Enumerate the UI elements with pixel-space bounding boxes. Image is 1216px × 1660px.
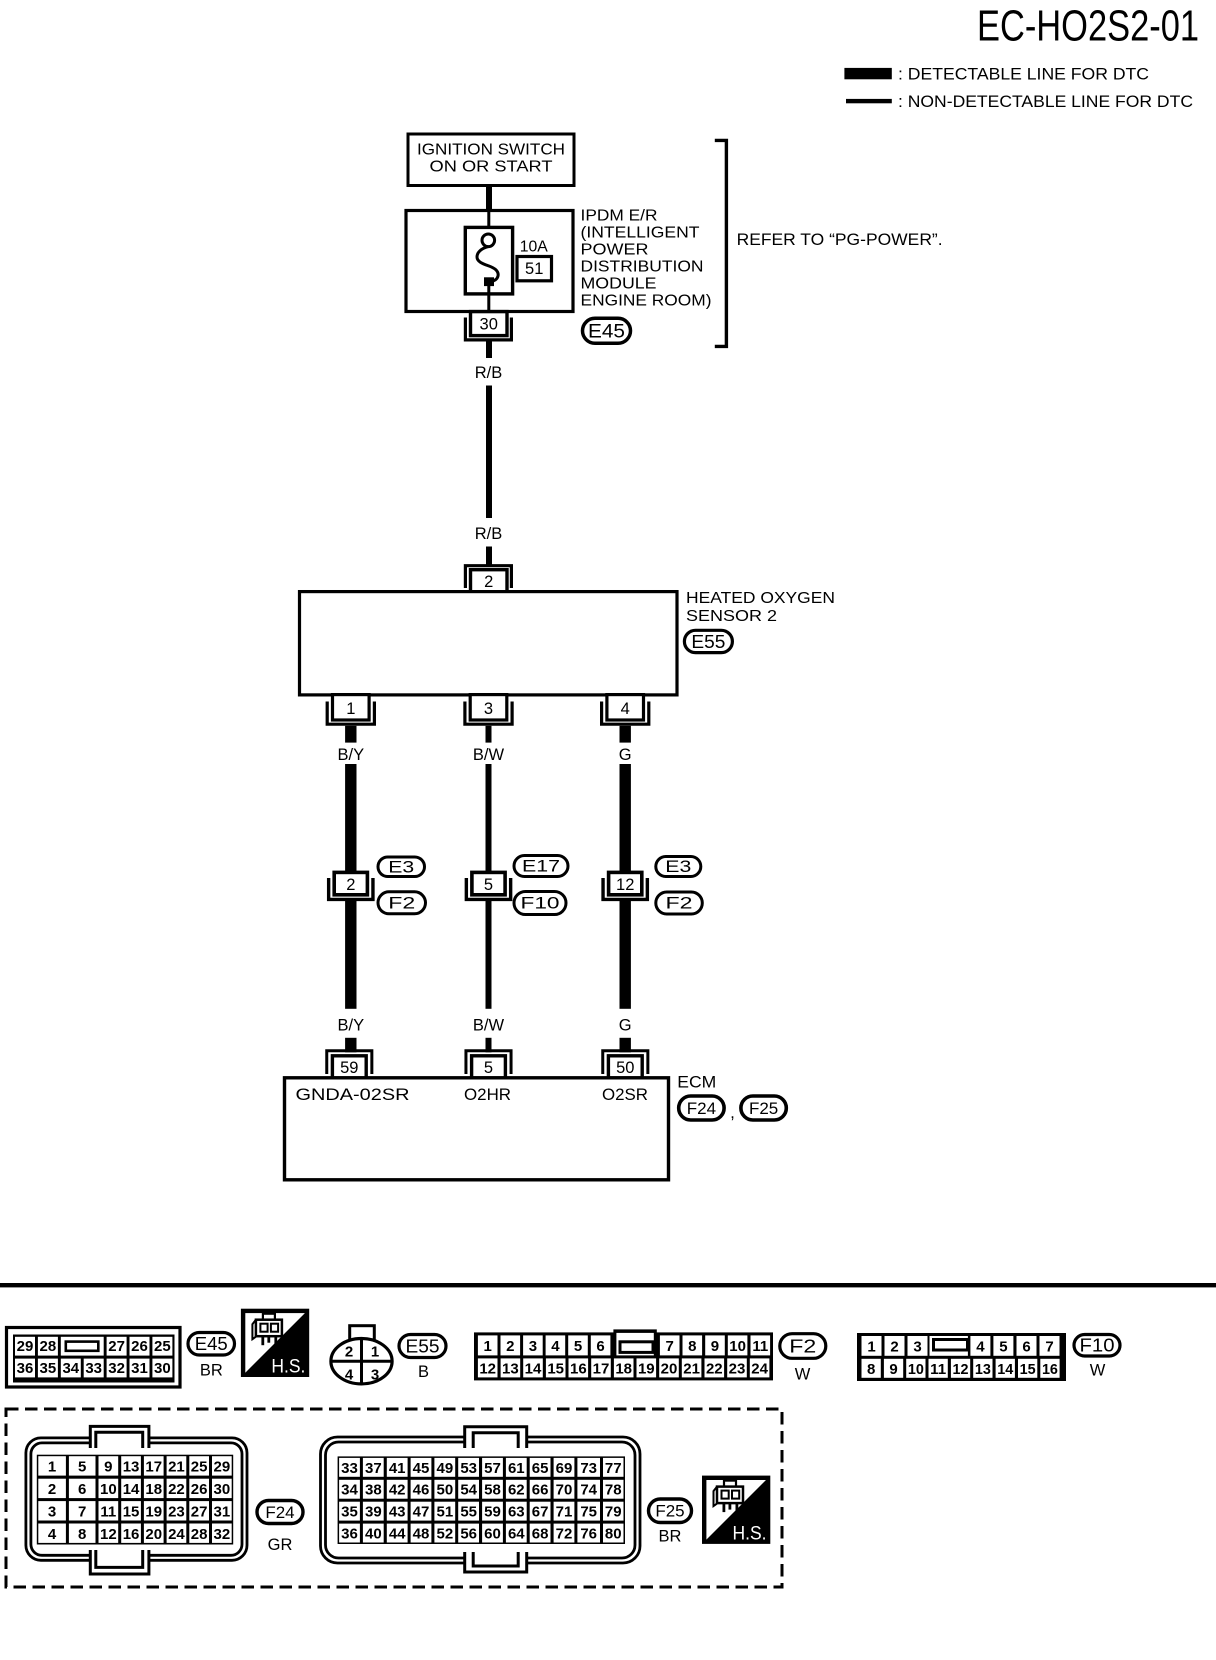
svg-text:72: 72 (556, 1526, 573, 1543)
svg-text:9: 9 (889, 1361, 897, 1378)
wire R/B vertical (486, 386, 492, 519)
svg-text:63: 63 (508, 1504, 525, 1521)
connector F25 pin grid face view (321, 1437, 641, 1563)
separator line (0, 1283, 1216, 1287)
svg-text:21: 21 (683, 1360, 700, 1377)
svg-text:E17: E17 (522, 858, 560, 876)
svg-text:32: 32 (214, 1526, 231, 1543)
svg-text:68: 68 (532, 1526, 549, 1543)
svg-text:61: 61 (508, 1460, 525, 1477)
svg-text:39: 39 (365, 1504, 382, 1521)
svg-text:11: 11 (930, 1361, 946, 1378)
svg-text:50: 50 (436, 1482, 453, 1499)
svg-text:67: 67 (532, 1504, 549, 1521)
svg-text:: NON-DETECTABLE LINE FOR DTC: : NON-DETECTABLE LINE FOR DTC (898, 93, 1193, 111)
svg-text:4: 4 (621, 700, 630, 718)
svg-text:6: 6 (78, 1481, 86, 1498)
svg-text:B: B (418, 1363, 429, 1381)
fuse 10A element (482, 234, 495, 247)
svg-text:,: , (730, 1103, 735, 1122)
svg-text:6: 6 (1022, 1338, 1030, 1355)
svg-text:R/B: R/B (475, 525, 503, 543)
svg-text:30: 30 (214, 1481, 231, 1498)
svg-text:F10: F10 (1080, 1335, 1115, 1356)
svg-text:30: 30 (154, 1360, 171, 1377)
wire G stub above ECM (620, 1038, 631, 1053)
svg-text:F24: F24 (687, 1099, 716, 1118)
connector F10 label (bottom) (1074, 1335, 1120, 1357)
svg-text:44: 44 (389, 1526, 406, 1543)
svg-text:ECM: ECM (677, 1074, 716, 1092)
dashed ECM connector box (6, 1409, 782, 1587)
svg-text:5: 5 (78, 1458, 86, 1475)
svg-text:62: 62 (508, 1482, 525, 1499)
inline connector terminal 12 (609, 872, 642, 894)
connector E17 oval (514, 856, 568, 877)
wire B/W stub below terminal (486, 726, 492, 743)
IPDM E/R box (406, 211, 573, 312)
connector E45 oval (IPDM) (583, 318, 631, 343)
svg-text:20: 20 (661, 1360, 678, 1377)
svg-text:13: 13 (123, 1458, 140, 1475)
fuse box (465, 227, 512, 294)
wire R/B stub below terminal 30 (486, 341, 492, 358)
connector F2 oval (378, 892, 426, 914)
svg-text:O2SR: O2SR (602, 1086, 648, 1104)
svg-text:50: 50 (616, 1059, 634, 1077)
ignition switch box (408, 134, 574, 186)
connector E55 round face view (350, 1326, 375, 1344)
svg-text:3: 3 (371, 1367, 379, 1384)
svg-text:O2HR: O2HR (464, 1086, 511, 1104)
svg-text:35: 35 (40, 1360, 57, 1377)
connector F10 pin grid face view (857, 1333, 1066, 1381)
connector E45 pin grid face view (7, 1328, 181, 1388)
svg-text:25: 25 (191, 1458, 208, 1475)
connector E3 oval (656, 857, 701, 877)
legend detectable line swatch (844, 68, 891, 79)
svg-text:1: 1 (867, 1338, 875, 1355)
bracket refer to PG-POWER (715, 140, 727, 346)
svg-text:MODULE: MODULE (581, 276, 657, 293)
svg-text:10: 10 (908, 1361, 924, 1378)
wire B/W stub above ECM (486, 1038, 492, 1053)
svg-text:4: 4 (976, 1338, 985, 1355)
connector E3 oval (378, 857, 425, 877)
svg-text:42: 42 (389, 1482, 406, 1499)
svg-text:75: 75 (580, 1504, 597, 1521)
svg-text:15: 15 (123, 1503, 140, 1520)
terminal 30 (465, 318, 511, 340)
svg-text:15: 15 (1020, 1361, 1036, 1378)
connector E55 label (bottom) (399, 1335, 446, 1358)
svg-text:73: 73 (580, 1460, 597, 1477)
svg-text:17: 17 (593, 1360, 610, 1377)
svg-text:7: 7 (1045, 1338, 1053, 1355)
svg-text:48: 48 (413, 1526, 430, 1543)
svg-text:11: 11 (752, 1338, 768, 1355)
svg-text:41: 41 (389, 1460, 406, 1477)
svg-text:51: 51 (525, 260, 543, 278)
svg-text:34: 34 (341, 1482, 358, 1499)
svg-text:G: G (619, 1016, 632, 1034)
heated oxygen sensor 2 box (300, 592, 678, 695)
wire B/W vertical upper (486, 764, 492, 873)
svg-text:33: 33 (341, 1460, 358, 1477)
wire B/Y stub above ECM (345, 1038, 356, 1053)
svg-text:6: 6 (596, 1338, 604, 1355)
svg-text:SENSOR 2: SENSOR 2 (686, 608, 777, 625)
svg-text:3: 3 (484, 700, 493, 718)
svg-text:76: 76 (580, 1526, 597, 1543)
svg-text:28: 28 (40, 1338, 57, 1355)
svg-text:1: 1 (484, 1338, 492, 1355)
svg-text:71: 71 (556, 1504, 573, 1521)
svg-text:16: 16 (570, 1360, 587, 1377)
svg-text:80: 80 (605, 1526, 622, 1543)
connector F24 pin grid face view (26, 1438, 247, 1560)
svg-text:IGNITION SWITCH: IGNITION SWITCH (417, 142, 565, 159)
svg-text:26: 26 (131, 1338, 148, 1355)
svg-text:60: 60 (484, 1526, 501, 1543)
svg-text:33: 33 (85, 1360, 102, 1377)
svg-text:64: 64 (508, 1526, 525, 1543)
svg-text:19: 19 (638, 1360, 655, 1377)
svg-text:27: 27 (191, 1503, 208, 1520)
svg-text:14: 14 (525, 1360, 542, 1377)
svg-text:36: 36 (17, 1360, 34, 1377)
svg-text:8: 8 (867, 1361, 875, 1378)
svg-text:5: 5 (999, 1338, 1007, 1355)
svg-text:24: 24 (751, 1360, 768, 1377)
svg-text:12: 12 (479, 1360, 496, 1377)
svg-text:E45: E45 (195, 1333, 228, 1354)
svg-text:52: 52 (436, 1526, 453, 1543)
svg-text:19: 19 (145, 1503, 162, 1520)
svg-text:51: 51 (436, 1504, 453, 1521)
svg-text:1: 1 (48, 1458, 56, 1475)
svg-text:16: 16 (123, 1526, 140, 1543)
svg-text:59: 59 (484, 1504, 501, 1521)
connector F24 label (257, 1501, 303, 1524)
svg-text:16: 16 (1042, 1361, 1058, 1378)
svg-text:13: 13 (502, 1360, 519, 1377)
connector E45 label (bottom) (188, 1333, 235, 1356)
svg-text:B/Y: B/Y (337, 1016, 364, 1034)
svg-text:47: 47 (413, 1504, 430, 1521)
connector F2 oval (656, 892, 703, 914)
terminal 59 (ECM) (327, 1051, 372, 1074)
svg-text:9: 9 (711, 1338, 719, 1355)
ECM box (285, 1078, 669, 1180)
svg-text:2: 2 (484, 573, 493, 591)
svg-text:4: 4 (551, 1338, 560, 1355)
svg-text:ON OR START: ON OR START (430, 159, 553, 176)
svg-text:65: 65 (532, 1460, 549, 1477)
svg-text:20: 20 (145, 1526, 162, 1543)
svg-text:7: 7 (78, 1503, 86, 1520)
wire R/B to terminal 2 (486, 547, 492, 566)
wire fuse to terminal 30 (487, 286, 490, 313)
svg-text:56: 56 (460, 1526, 477, 1543)
svg-text:F25: F25 (655, 1502, 684, 1521)
connector F2 label (bottom) (780, 1334, 826, 1359)
terminal 1 (HO2S2) (333, 695, 370, 720)
svg-text:57: 57 (484, 1460, 501, 1477)
connector F10 oval (514, 892, 566, 915)
svg-text:21: 21 (168, 1458, 185, 1475)
svg-text:27: 27 (108, 1338, 125, 1355)
svg-text:10: 10 (729, 1338, 746, 1355)
svg-text:14: 14 (123, 1481, 140, 1498)
connector F25 oval (ECM) (741, 1096, 786, 1120)
svg-text:26: 26 (191, 1481, 208, 1498)
svg-text:25: 25 (154, 1338, 171, 1355)
svg-text:E3: E3 (388, 858, 414, 876)
svg-text:5: 5 (574, 1338, 582, 1355)
svg-text:7: 7 (666, 1338, 674, 1355)
svg-text:22: 22 (168, 1481, 185, 1498)
svg-text:30: 30 (480, 316, 498, 334)
inline connector terminal 2 (334, 872, 367, 894)
svg-text:9: 9 (104, 1458, 112, 1475)
svg-text:79: 79 (605, 1504, 622, 1521)
svg-text:DISTRIBUTION: DISTRIBUTION (581, 259, 704, 276)
svg-text:EC-HO2S2-01: EC-HO2S2-01 (977, 2, 1199, 51)
svg-text:59: 59 (340, 1059, 358, 1077)
svg-text:29: 29 (17, 1338, 34, 1355)
svg-text:3: 3 (913, 1338, 921, 1355)
terminal 5 (ECM) (466, 1051, 511, 1074)
svg-text:2: 2 (345, 1344, 353, 1361)
svg-text:F2: F2 (388, 894, 415, 912)
svg-text:77: 77 (605, 1460, 622, 1477)
fuse number box 51 (517, 257, 552, 281)
svg-text:2: 2 (890, 1338, 898, 1355)
svg-text:32: 32 (108, 1360, 125, 1377)
wire G vertical lower (620, 901, 631, 1009)
svg-text:B/W: B/W (473, 746, 505, 764)
svg-text:12: 12 (953, 1361, 969, 1378)
svg-text:E55: E55 (691, 631, 725, 652)
svg-text:23: 23 (729, 1360, 746, 1377)
svg-text:11: 11 (100, 1503, 116, 1520)
svg-text:3: 3 (529, 1338, 537, 1355)
svg-text:5: 5 (484, 876, 493, 894)
svg-text:10A: 10A (520, 238, 548, 255)
connector F24 oval (ECM) (679, 1096, 724, 1120)
svg-text:43: 43 (389, 1504, 406, 1521)
svg-text:W: W (1090, 1361, 1106, 1379)
svg-text:GNDA-02SR: GNDA-02SR (296, 1086, 410, 1104)
svg-text:36: 36 (341, 1526, 358, 1543)
svg-text:53: 53 (460, 1460, 477, 1477)
wire IPDM internal upper (487, 211, 490, 235)
svg-text:1: 1 (346, 700, 355, 718)
svg-text:13: 13 (975, 1361, 991, 1378)
svg-text:54: 54 (460, 1482, 477, 1499)
svg-text:HEATED OXYGEN: HEATED OXYGEN (686, 590, 835, 607)
svg-text:69: 69 (556, 1460, 573, 1477)
inline connector terminal 5 (472, 872, 505, 894)
svg-text:2: 2 (346, 876, 355, 894)
svg-text:35: 35 (341, 1504, 358, 1521)
svg-text:22: 22 (706, 1360, 723, 1377)
svg-text:17: 17 (145, 1458, 162, 1475)
svg-text:8: 8 (78, 1526, 86, 1543)
svg-text:1: 1 (371, 1344, 379, 1361)
legend non-detectable line swatch (846, 99, 892, 103)
svg-text:37: 37 (365, 1460, 382, 1477)
svg-text:46: 46 (413, 1482, 430, 1499)
svg-text:R/B: R/B (475, 364, 503, 382)
svg-text:3: 3 (48, 1503, 56, 1520)
svg-text:F10: F10 (521, 895, 560, 913)
wire G stub below terminal (620, 726, 631, 743)
svg-text:F25: F25 (749, 1099, 778, 1118)
wire B/W vertical lower (486, 901, 492, 1009)
connector F25 label (649, 1499, 692, 1523)
wire B/Y stub below terminal (345, 726, 356, 743)
terminal 2 (HO2S2) (465, 566, 511, 588)
svg-text:4: 4 (345, 1367, 354, 1384)
H.S. icon (E45) (243, 1311, 307, 1378)
wire B/Y vertical lower (345, 901, 356, 1009)
terminal 3 (HO2S2) (470, 695, 507, 720)
svg-text:4: 4 (48, 1526, 57, 1543)
svg-text:E45: E45 (588, 321, 625, 342)
wire ignition switch to IPDM (486, 185, 492, 212)
svg-text:F24: F24 (265, 1503, 294, 1522)
svg-text:REFER TO “PG-POWER”.: REFER TO “PG-POWER”. (737, 230, 943, 249)
svg-text:78: 78 (605, 1482, 622, 1499)
svg-text:24: 24 (168, 1526, 185, 1543)
svg-text:18: 18 (615, 1360, 632, 1377)
svg-text:12: 12 (616, 876, 634, 894)
svg-text:BR: BR (200, 1362, 223, 1380)
svg-text:5: 5 (484, 1059, 493, 1077)
svg-text:31: 31 (214, 1503, 231, 1520)
connector E55 oval (sensor) (684, 630, 732, 652)
svg-text:12: 12 (100, 1526, 117, 1543)
svg-text:IPDM E/R: IPDM E/R (581, 208, 658, 225)
svg-text:F2: F2 (666, 895, 693, 913)
wire B/Y vertical upper (345, 764, 356, 873)
terminal 50 (ECM) (603, 1051, 648, 1074)
wire G vertical upper (620, 764, 631, 873)
svg-text:GR: GR (268, 1536, 293, 1554)
svg-text:POWER: POWER (581, 242, 649, 259)
svg-text:14: 14 (997, 1361, 1014, 1378)
svg-text:E55: E55 (406, 1335, 440, 1356)
svg-text:23: 23 (168, 1503, 185, 1520)
svg-text:W: W (795, 1365, 811, 1383)
svg-text:B/W: B/W (473, 1016, 505, 1034)
svg-text:34: 34 (62, 1360, 79, 1377)
connector F2 pin grid face view (613, 1329, 656, 1339)
svg-text:(INTELLIGENT: (INTELLIGENT (581, 225, 700, 242)
svg-text:2: 2 (506, 1338, 514, 1355)
svg-text:E3: E3 (665, 858, 691, 876)
svg-text:G: G (619, 746, 632, 764)
terminal 4 (HO2S2) (607, 695, 644, 720)
svg-text:BR: BR (659, 1528, 682, 1546)
svg-text:55: 55 (460, 1504, 477, 1521)
svg-text:F2: F2 (789, 1335, 816, 1356)
svg-text:15: 15 (547, 1360, 564, 1377)
svg-text:8: 8 (688, 1338, 696, 1355)
svg-text:: DETECTABLE LINE FOR DTC: : DETECTABLE LINE FOR DTC (898, 65, 1149, 83)
svg-text:ENGINE ROOM): ENGINE ROOM) (581, 293, 712, 310)
svg-text:38: 38 (365, 1482, 382, 1499)
svg-text:2: 2 (48, 1481, 56, 1498)
svg-text:58: 58 (484, 1482, 501, 1499)
svg-text:49: 49 (436, 1460, 453, 1477)
svg-text:29: 29 (214, 1458, 231, 1475)
svg-text:74: 74 (580, 1482, 597, 1499)
svg-text:66: 66 (532, 1482, 549, 1499)
svg-text:31: 31 (131, 1360, 148, 1377)
svg-text:10: 10 (100, 1481, 117, 1498)
H.S. icon (F25) (704, 1478, 768, 1545)
svg-text:B/Y: B/Y (337, 746, 364, 764)
svg-text:40: 40 (365, 1526, 382, 1543)
svg-text:45: 45 (413, 1460, 430, 1477)
svg-text:28: 28 (191, 1526, 208, 1543)
svg-text:18: 18 (145, 1481, 162, 1498)
svg-text:70: 70 (556, 1482, 573, 1499)
